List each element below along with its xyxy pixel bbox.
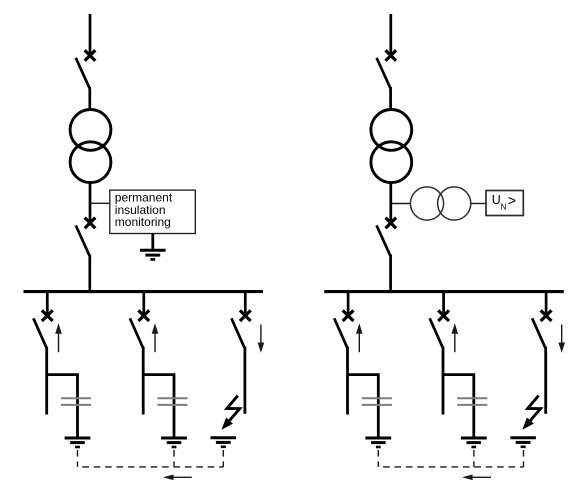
- wire: incoming supply (left): [89, 14, 92, 56]
- wire: VT to relay box (right): [471, 203, 487, 205]
- ground (earth) of feeder F2 capacitor (right): [461, 438, 487, 447]
- lightning bolt: earth fault on feeder F3 (left): [222, 396, 240, 430]
- arrow: capacitive current up, feeder F1 (left): [55, 323, 62, 352]
- wire: monitor box to ground (left): [151, 234, 154, 250]
- disconnector blade of feeder F2 (left): [130, 318, 143, 348]
- disconnector blade of feeder F2 (right): [430, 318, 443, 348]
- busbar (right): [324, 290, 564, 293]
- wire: branch to capacitor of feeder F2 (right): [443, 375, 474, 437]
- svg-text:U: U: [492, 193, 501, 207]
- wire: feeder F2 vertical (right): [442, 347, 445, 415]
- lightning bolt: earth fault on feeder F3 (right): [522, 396, 540, 430]
- circuit breaker Q2 (left): X contact: [85, 218, 96, 229]
- wire: Q2 to busbar (left): [88, 255, 91, 293]
- svg-text:>: >: [508, 194, 516, 210]
- disconnector blade of feeder F1 (right): [334, 318, 347, 348]
- arrow: capacitive current up, feeder F2 (left): [152, 323, 159, 352]
- capacitor (line-to-earth capacitance) of feeder F1 (right): [362, 398, 392, 405]
- disconnector blade of Q2 (right): [377, 225, 391, 256]
- circuit breaker of feeder F3 (left): X contact: [240, 310, 251, 321]
- circuit breaker Q2 (right): X contact: [386, 218, 397, 229]
- transformer T1 (left): two overlapping circles: [70, 109, 111, 182]
- circuit breaker of feeder F2 (right): X contact: [438, 310, 449, 321]
- wire: busbar drop of feeder F2 (left): [142, 292, 145, 316]
- wire: busbar drop of feeder F3 (left): [244, 292, 247, 316]
- wire: incoming supply (right): [389, 14, 392, 56]
- ground (earth) at fault location, feeder F3 (right): [510, 438, 536, 447]
- voltage transformer VT (right): two overlapping circles: [410, 187, 470, 220]
- wire: feeder F1 vertical (left): [45, 347, 48, 415]
- arrow: fault return current direction (right): [462, 475, 491, 481]
- wire: transformer secondary (left): [89, 182, 92, 223]
- transformer T1 (right): two overlapping circles: [371, 109, 412, 182]
- wire: Q2 to busbar (right): [389, 255, 392, 293]
- capacitor (line-to-earth capacitance) of feeder F2 (right): [457, 398, 487, 405]
- wire: branch to capacitor of feeder F1 (left): [47, 375, 78, 437]
- wire: tap to voltage transformer (right): [391, 203, 411, 205]
- svg-text:N: N: [501, 202, 507, 211]
- disconnector blade of Q1 (left): [76, 58, 90, 89]
- circuit breaker of feeder F1 (right): X contact: [343, 310, 354, 321]
- disconnector blade of Q2 (left): [76, 225, 90, 256]
- dashed fault-current return path (right): [378, 450, 523, 467]
- wire: feeder F2 vertical (left): [142, 347, 145, 415]
- disconnector blade of Q1 (right): [377, 58, 391, 89]
- permanent insulation monitoring relay box (left): [110, 190, 196, 233]
- wire: faulted feeder F3 vertical (right): [544, 347, 547, 414]
- circuit breaker of feeder F1 (left): X contact: [42, 310, 53, 321]
- arrow: capacitive current up, feeder F2 (right): [452, 323, 459, 352]
- capacitor (line-to-earth capacitance) of feeder F1 (left): [61, 398, 91, 405]
- ground (earth) of feeder F1 capacitor (left): [65, 438, 91, 447]
- disconnector blade of feeder F1 (left): [33, 318, 46, 348]
- wire: branch to capacitor of feeder F1 (right): [348, 375, 379, 437]
- busbar (left): [24, 290, 264, 293]
- disconnector blade of feeder F3 (left): [231, 318, 244, 348]
- wire: transformer secondary (right): [389, 182, 392, 223]
- circuit breaker of feeder F3 (right): X contact: [541, 310, 552, 321]
- wire: busbar drop of feeder F1 (right): [347, 292, 350, 316]
- ground (earth) of feeder F1 capacitor (right): [365, 438, 391, 447]
- wire: Q1 to transformer (left): [88, 87, 91, 110]
- wire: branch to capacitor of feeder F2 (left): [143, 375, 174, 437]
- wire: busbar drop of feeder F1 (left): [46, 292, 49, 316]
- arrow: fault return current direction (left): [163, 475, 192, 481]
- ground (earth) of insulation monitor (left): [140, 250, 166, 259]
- neutral overvoltage relay box UN> (right): [486, 191, 523, 216]
- capacitor (line-to-earth capacitance) of feeder F2 (left): [157, 398, 187, 405]
- wire: Q1 to transformer (right): [389, 87, 392, 110]
- wire: feeder F1 vertical (right): [346, 347, 349, 415]
- circuit breaker Q1 (left): X contact: [85, 50, 96, 61]
- dashed fault-current return path (left): [78, 450, 224, 467]
- disconnector blade of feeder F3 (right): [532, 318, 545, 348]
- wire: busbar drop of feeder F3 (right): [545, 292, 548, 316]
- svg-text:monitoring: monitoring: [115, 215, 171, 229]
- arrow: fault current down, feeder F3 (right): [558, 325, 565, 353]
- circuit breaker Q1 (right): X contact: [386, 50, 397, 61]
- arrow: capacitive current up, feeder F1 (right): [356, 323, 363, 352]
- wire: tap to insulation monitor (left): [90, 202, 111, 204]
- ground (earth) of feeder F2 capacitor (left): [161, 438, 187, 447]
- ground (earth) at fault location, feeder F3 (left): [211, 438, 237, 447]
- circuit breaker of feeder F2 (left): X contact: [138, 310, 149, 321]
- wire: busbar drop of feeder F2 (right): [442, 292, 445, 316]
- arrow: fault current down, feeder F3 (left): [258, 325, 265, 353]
- wire: faulted feeder F3 vertical (left): [243, 347, 246, 414]
